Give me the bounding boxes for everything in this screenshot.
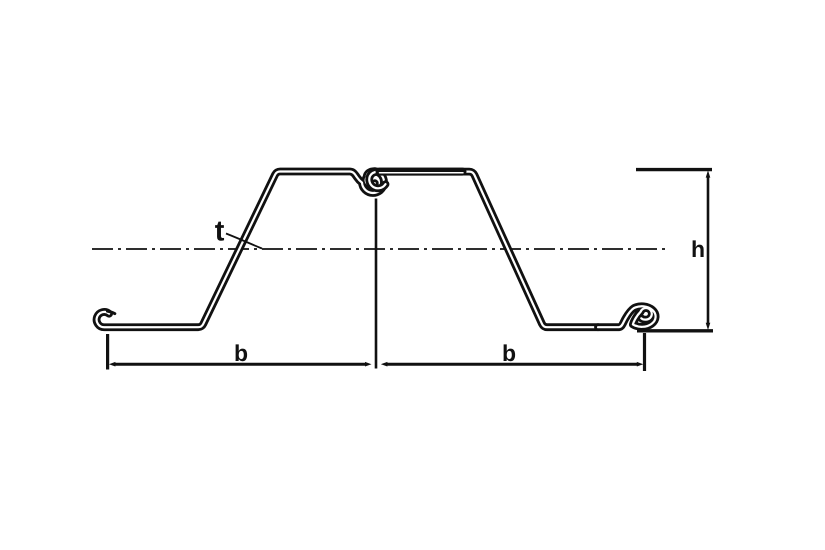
svg-text:b: b	[234, 340, 248, 366]
svg-text:t: t	[215, 216, 225, 248]
svg-text:h: h	[691, 236, 705, 262]
svg-text:b: b	[502, 340, 516, 366]
